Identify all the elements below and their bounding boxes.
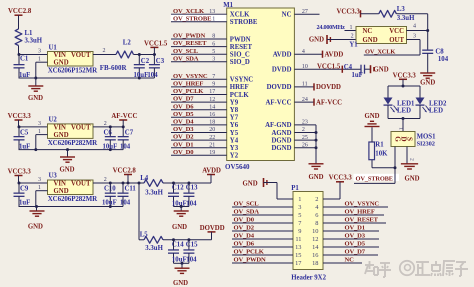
svg-text:20: 20 (209, 127, 215, 133)
svg-text:GND: GND (404, 175, 419, 182)
svg-text:STROBE: STROBE (230, 19, 258, 26)
svg-text:VCC1.5: VCC1.5 (317, 63, 341, 70)
svg-text:MOS1: MOS1 (417, 133, 436, 140)
svg-text:GND: GND (309, 37, 324, 44)
svg-text:18: 18 (209, 120, 215, 126)
svg-text:L3: L3 (397, 6, 406, 13)
svg-text:DVDD: DVDD (272, 67, 292, 74)
svg-text:C1: C1 (20, 56, 29, 63)
svg-text:Y5: Y5 (230, 130, 239, 137)
svg-text:VCC3.3: VCC3.3 (8, 113, 32, 120)
svg-text:DGND: DGND (271, 145, 291, 152)
svg-text:PWDN: PWDN (230, 36, 251, 43)
svg-text:1: 1 (38, 56, 41, 62)
svg-text:GND: GND (363, 37, 378, 44)
svg-text:C2: C2 (141, 58, 150, 65)
svg-text:2: 2 (104, 121, 107, 127)
svg-text:5: 5 (212, 49, 215, 55)
svg-text:LED1: LED1 (397, 100, 415, 107)
svg-text:AF-VCC: AF-VCC (316, 99, 342, 106)
svg-text:Y8: Y8 (230, 107, 239, 114)
svg-text:8: 8 (315, 220, 318, 227)
svg-text:10uF: 10uF (102, 200, 117, 207)
svg-text:3.3uH: 3.3uH (145, 245, 163, 252)
svg-text:13: 13 (295, 244, 301, 251)
svg-text:24.000MHz: 24.000MHz (317, 24, 346, 31)
svg-text:18: 18 (312, 260, 318, 267)
svg-text:VOUT: VOUT (71, 52, 91, 59)
svg-text:VCC2.8: VCC2.8 (113, 167, 137, 174)
svg-text:SIO_C: SIO_C (230, 52, 250, 59)
svg-text:14: 14 (209, 104, 215, 110)
svg-text:OV_D5: OV_D5 (173, 111, 194, 118)
svg-text:Header 9X2: Header 9X2 (291, 274, 326, 281)
svg-text:1uF: 1uF (19, 200, 30, 207)
svg-text:3.3uH: 3.3uH (25, 38, 43, 45)
svg-text:16: 16 (209, 112, 215, 118)
svg-text:3: 3 (212, 57, 215, 63)
svg-text:9: 9 (212, 82, 215, 88)
svg-text:2: 2 (104, 177, 107, 183)
svg-text:OV_XCLK: OV_XCLK (365, 49, 395, 56)
svg-text:10uF: 10uF (172, 257, 187, 264)
svg-text:C15: C15 (186, 241, 198, 248)
svg-text:OV_STROBE: OV_STROBE (356, 176, 393, 183)
svg-text:XCLK: XCLK (230, 12, 250, 19)
svg-text:14: 14 (312, 244, 319, 251)
svg-text:Y3: Y3 (230, 145, 239, 152)
svg-text:1: 1 (298, 196, 301, 203)
svg-text:DOVDD: DOVDD (267, 84, 292, 91)
svg-text:VCC3.3: VCC3.3 (337, 8, 361, 15)
svg-text:C4: C4 (344, 64, 353, 71)
svg-text:R1: R1 (375, 141, 384, 148)
svg-text:VCC3.3: VCC3.3 (393, 72, 417, 79)
svg-text:2: 2 (103, 48, 106, 54)
svg-text:LED: LED (429, 107, 443, 114)
svg-text:15: 15 (295, 252, 301, 259)
svg-text:OV_D1: OV_D1 (173, 141, 193, 148)
svg-text:S: S (406, 137, 414, 141)
svg-text:3: 3 (413, 33, 416, 39)
svg-text:P1: P1 (291, 185, 299, 192)
svg-text:GND: GND (374, 66, 389, 73)
svg-text:NC: NC (282, 12, 292, 19)
svg-text:2: 2 (315, 196, 318, 203)
svg-text:OV_RESET: OV_RESET (345, 217, 379, 224)
svg-text:U2: U2 (49, 117, 58, 124)
svg-text:C11: C11 (125, 186, 137, 193)
svg-text:10: 10 (312, 228, 318, 235)
svg-text:8: 8 (212, 34, 215, 40)
svg-text:AF-VCC: AF-VCC (111, 113, 137, 120)
svg-text:OV_D6: OV_D6 (173, 103, 194, 110)
svg-text:SIO_D: SIO_D (230, 59, 250, 66)
svg-text:AGND: AGND (271, 130, 291, 137)
svg-text:VCC3.3: VCC3.3 (8, 168, 32, 175)
svg-text:LED: LED (397, 107, 411, 114)
svg-text:L2: L2 (123, 40, 132, 47)
svg-text:OV_HREF: OV_HREF (345, 209, 375, 216)
svg-text:3: 3 (298, 204, 301, 211)
svg-text:13: 13 (209, 9, 215, 15)
svg-text:GND: GND (59, 167, 74, 174)
svg-text:C8: C8 (435, 49, 444, 56)
svg-text:1: 1 (212, 16, 215, 22)
svg-text:OV_XCLK: OV_XCLK (173, 8, 205, 15)
svg-text:OV_D2: OV_D2 (173, 134, 194, 141)
svg-text:OV_HREF: OV_HREF (173, 81, 203, 88)
svg-text:XC6206P282MR: XC6206P282MR (48, 195, 98, 203)
svg-text:GND: GND (172, 224, 187, 231)
svg-text:OV_RESET: OV_RESET (173, 40, 207, 47)
svg-text:OV_D3: OV_D3 (173, 126, 194, 133)
svg-text:Y7: Y7 (230, 115, 239, 122)
svg-text:Y2: Y2 (230, 153, 239, 160)
svg-text:XC6206P282MR: XC6206P282MR (48, 139, 98, 147)
svg-text:6: 6 (212, 41, 215, 47)
svg-text:3.3uH: 3.3uH (145, 190, 163, 197)
svg-text:SI2302: SI2302 (417, 141, 435, 148)
svg-text:AF-VCC: AF-VCC (265, 99, 291, 106)
svg-text:NC: NC (363, 28, 373, 35)
svg-text:OV_D3: OV_D3 (345, 233, 366, 240)
svg-text:OV_D7: OV_D7 (345, 249, 366, 256)
svg-text:104: 104 (120, 200, 131, 207)
svg-text:C7: C7 (125, 130, 134, 137)
svg-text:OV_SDA: OV_SDA (234, 209, 260, 216)
svg-text:VOUT: VOUT (71, 180, 91, 187)
svg-text:AF-GND: AF-GND (265, 122, 292, 129)
svg-text:U1: U1 (49, 44, 58, 51)
svg-text:GND: GND (243, 180, 258, 187)
svg-text:12: 12 (312, 236, 318, 243)
svg-text:22: 22 (209, 135, 215, 141)
svg-text:GND: GND (28, 95, 43, 102)
svg-text:OV_VSYNC: OV_VSYNC (345, 201, 380, 208)
svg-text:OV_D0: OV_D0 (234, 217, 255, 224)
svg-text:1: 1 (397, 127, 403, 130)
svg-text:DOVDD: DOVDD (316, 84, 341, 91)
svg-text:21: 21 (209, 142, 215, 148)
svg-text:OV_D5: OV_D5 (345, 241, 366, 248)
svg-text:AVDD: AVDD (273, 52, 292, 59)
svg-text:C3: C3 (156, 58, 165, 65)
svg-text:2: 2 (351, 34, 354, 40)
svg-text:RESET: RESET (230, 44, 253, 51)
svg-text:GND: GND (173, 280, 188, 287)
svg-text:5: 5 (298, 212, 301, 219)
svg-text:C13: C13 (186, 185, 198, 192)
svg-text:VCC3.3: VCC3.3 (329, 175, 353, 182)
svg-text:FB-600R: FB-600R (100, 64, 128, 72)
svg-text:4: 4 (413, 24, 416, 30)
svg-text:3: 3 (38, 121, 41, 127)
svg-text:104: 104 (438, 56, 449, 63)
svg-text:9: 9 (298, 228, 301, 235)
svg-text:AVDD: AVDD (202, 167, 221, 174)
svg-text:Y4: Y4 (230, 137, 239, 144)
svg-text:U3: U3 (49, 173, 58, 180)
svg-text:VCC1.5: VCC1.5 (144, 41, 168, 48)
svg-text:6: 6 (315, 212, 318, 219)
svg-text:OV_D6: OV_D6 (234, 241, 255, 248)
svg-text:19: 19 (209, 150, 215, 156)
svg-text:10K: 10K (375, 151, 388, 158)
svg-text:XC6206P152MR: XC6206P152MR (48, 67, 98, 75)
svg-text:OV_PWDN: OV_PWDN (173, 33, 205, 40)
svg-text:OV_SCL: OV_SCL (173, 48, 199, 55)
svg-text:17: 17 (209, 89, 215, 95)
svg-text:NC: NC (345, 257, 355, 264)
svg-text:VCC: VCC (389, 28, 404, 35)
svg-text:OV_PWDN: OV_PWDN (234, 257, 266, 264)
svg-text:17: 17 (295, 260, 302, 267)
svg-text:10uF: 10uF (134, 72, 149, 79)
svg-text:OV5640: OV5640 (225, 163, 250, 171)
svg-text:1uF: 1uF (352, 72, 363, 79)
svg-text:OV_D4: OV_D4 (173, 119, 194, 126)
svg-text:DGND: DGND (271, 137, 291, 144)
svg-text:PCLK: PCLK (230, 92, 250, 99)
svg-text:VOUT: VOUT (71, 124, 91, 131)
svg-text:AVDD: AVDD (325, 52, 344, 59)
svg-text:OV_D7: OV_D7 (173, 96, 194, 103)
svg-text:OV_SCL: OV_SCL (234, 201, 260, 208)
svg-text:OV_D2: OV_D2 (234, 225, 255, 232)
svg-text:3: 3 (38, 177, 41, 183)
svg-text:C5: C5 (20, 130, 29, 137)
svg-text:GND: GND (308, 174, 323, 181)
svg-text:VIN: VIN (54, 124, 67, 131)
svg-text:3: 3 (38, 49, 41, 55)
svg-text:OV_PCLK: OV_PCLK (234, 249, 265, 256)
svg-text:C9: C9 (20, 186, 29, 193)
svg-text:16: 16 (312, 252, 318, 259)
svg-text:VCC2.8: VCC2.8 (8, 8, 32, 15)
svg-text:GND: GND (364, 113, 379, 120)
svg-text:OV_SDA: OV_SDA (173, 55, 199, 62)
svg-text:OV_VSYNC: OV_VSYNC (173, 73, 208, 80)
svg-text:OV_PCLK: OV_PCLK (173, 88, 204, 95)
svg-text:Y9: Y9 (230, 99, 239, 106)
svg-text:Y6: Y6 (230, 122, 239, 129)
svg-text:LED2: LED2 (429, 100, 447, 107)
svg-text:1: 1 (38, 129, 41, 135)
svg-text:11: 11 (295, 236, 301, 243)
svg-text:12: 12 (209, 97, 215, 103)
svg-text:104: 104 (120, 143, 131, 150)
svg-text:2: 2 (409, 158, 415, 161)
svg-text:10uF: 10uF (103, 143, 118, 150)
svg-text:GND: GND (28, 224, 43, 231)
svg-text:C6: C6 (104, 130, 113, 137)
svg-text:VSYNC: VSYNC (230, 77, 254, 84)
svg-text:3.3uH: 3.3uH (397, 15, 415, 22)
svg-text:HREF: HREF (230, 84, 249, 91)
svg-text:DOVDD: DOVDD (200, 225, 225, 232)
svg-text:1: 1 (38, 185, 41, 191)
svg-text:L1: L1 (25, 30, 34, 37)
svg-text:GND: GND (420, 79, 435, 86)
svg-text:104: 104 (147, 72, 158, 79)
svg-text:VIN: VIN (54, 52, 67, 59)
svg-text:104: 104 (186, 257, 197, 264)
svg-text:VIN: VIN (54, 180, 67, 187)
svg-text:7: 7 (212, 74, 215, 80)
svg-text:Y1: Y1 (349, 41, 358, 48)
svg-text:OV_D0: OV_D0 (173, 149, 194, 156)
svg-text:OV_D4: OV_D4 (234, 233, 255, 240)
svg-text:OV_D1: OV_D1 (345, 225, 365, 232)
svg-text:OUT: OUT (389, 37, 404, 44)
svg-text:OV_STROBE: OV_STROBE (173, 15, 212, 22)
